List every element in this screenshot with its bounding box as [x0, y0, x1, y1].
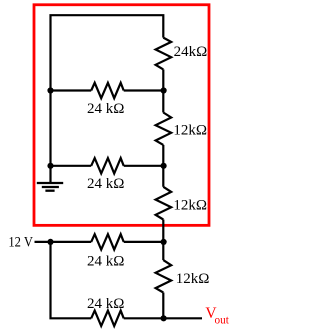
resistor R6 24k (horizontal, row3) [91, 234, 124, 249]
wire: row3 right lead [124, 241, 164, 243]
wire: bus R3 to row2 [162, 145, 164, 187]
wire: row1 left lead [51, 89, 92, 91]
svg-text:24 kΩ: 24 kΩ [87, 176, 124, 192]
svg-text:24 kΩ: 24 kΩ [87, 101, 124, 117]
node row3-right [161, 239, 167, 245]
resistor R2 24k (horizontal, row1) [91, 83, 124, 98]
resistor R4 24k (horizontal, row2) [91, 158, 124, 173]
ground [37, 166, 63, 191]
wire: row4 right lead to Vout [124, 317, 202, 319]
wire: row2 left lead [51, 165, 92, 167]
node row3-left [47, 239, 53, 245]
svg-text:12 V: 12 V [8, 234, 33, 250]
node row2-right [161, 163, 167, 169]
svg-text:12kΩ: 12kΩ [176, 271, 210, 287]
red highlight box [34, 5, 209, 226]
resistor R1 24k (vertical, top) [156, 38, 172, 70]
resistor R7 12k (vertical) [156, 260, 172, 292]
node row1-left [47, 87, 53, 93]
svg-text:24kΩ: 24kΩ [174, 44, 208, 60]
wire: bus R1 to row1 [162, 69, 164, 112]
node row2-left [47, 163, 53, 169]
svg-text:12kΩ: 12kΩ [173, 123, 207, 139]
svg-text:24 kΩ: 24 kΩ [87, 253, 124, 269]
svg-text:out: out [215, 314, 230, 326]
resistor R5 12k (vertical) [156, 187, 172, 220]
node row1-right [161, 87, 167, 93]
wire: row2 right lead [124, 165, 164, 167]
wire: row3 from 12V to resistor [35, 241, 92, 243]
wire: bus R7 to row4 [162, 293, 164, 319]
wire: row1 right lead [124, 89, 164, 91]
resistor R8 24k (horizontal, row4) [91, 311, 124, 326]
svg-text:12kΩ: 12kΩ [173, 198, 207, 214]
wire: left rail row1 to row2 [49, 91, 51, 166]
wire: left rail row3 to row4 [51, 242, 92, 318]
svg-text:24 kΩ: 24 kΩ [87, 296, 124, 312]
node row4 output [161, 315, 167, 321]
wire: top rail [51, 15, 164, 90]
wire: bus R5 to row3 [162, 220, 164, 261]
resistor R3 12k (vertical) [156, 113, 172, 145]
